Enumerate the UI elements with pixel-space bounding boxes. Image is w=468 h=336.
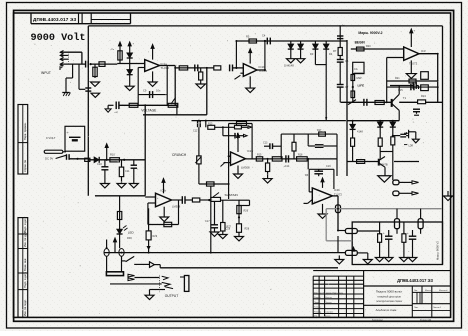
svg-text:TL072: TL072 <box>161 66 170 70</box>
svg-text:C13: C13 <box>263 142 268 145</box>
svg-text:Инв. № подл.: Инв. № подл. <box>23 299 27 316</box>
svg-text:1N4148: 1N4148 <box>284 63 294 67</box>
svg-text:электрическая схема: электрическая схема <box>376 300 402 303</box>
svg-text:9 VOLT: 9 VOLT <box>46 136 56 140</box>
svg-text:R15: R15 <box>257 154 262 157</box>
svg-text:Инв. № дубл.: Инв. № дубл. <box>23 230 27 247</box>
svg-text:ДП9В.4403.017 ЭЗ: ДП9В.4403.017 ЭЗ <box>33 17 76 22</box>
svg-text:R26: R26 <box>244 210 249 213</box>
svg-text:DC 9V: DC 9V <box>45 157 53 161</box>
svg-text:LDR: LDR <box>409 146 414 148</box>
svg-text:C12: C12 <box>193 130 198 133</box>
svg-text:SUSTAIN: SUSTAIN <box>225 193 238 197</box>
svg-text:Петров: Петров <box>325 302 332 304</box>
svg-text:LED: LED <box>128 231 135 235</box>
svg-text:Копировал: Копировал <box>372 319 384 321</box>
svg-text:R10: R10 <box>110 153 115 157</box>
svg-text:9000 Volt: 9000 Volt <box>31 32 86 44</box>
svg-text:IC3b: IC3b <box>334 188 340 192</box>
svg-text:R13: R13 <box>208 123 213 126</box>
svg-text:MW: MW <box>357 76 362 80</box>
svg-text:Масса: Масса <box>425 290 432 292</box>
svg-text:C11: C11 <box>125 169 130 173</box>
svg-text:BC547B: BC547B <box>378 162 388 166</box>
svg-text:R21: R21 <box>395 77 400 80</box>
svg-text:Н.контр.: Н.контр. <box>314 311 322 313</box>
svg-text:R28: R28 <box>245 228 250 231</box>
svg-text:Альбом из схем: Альбом из схем <box>376 308 397 312</box>
svg-text:Котов: Котов <box>325 316 330 318</box>
svg-text:VOLTAGE: VOLTAGE <box>141 109 157 113</box>
svg-text:Утв.: Утв. <box>314 316 318 318</box>
svg-text:R29: R29 <box>153 235 158 238</box>
svg-text:Листов 1: Листов 1 <box>433 307 442 309</box>
svg-text:Лит.: Лит. <box>414 290 418 292</box>
svg-text:Взам. инв.: Взам. инв. <box>23 258 27 271</box>
svg-text:R7: R7 <box>333 49 337 53</box>
svg-text:Марш. 9000V-2: Марш. 9000V-2 <box>358 31 382 35</box>
svg-text:гитарный дисторшн: гитарный дисторшн <box>377 294 401 298</box>
svg-text:Иванов: Иванов <box>325 297 332 299</box>
svg-text:CRUNCH: CRUNCH <box>172 153 187 157</box>
svg-text:R5: R5 <box>246 35 250 39</box>
svg-text:D3: D3 <box>310 52 314 56</box>
svg-text:C18: C18 <box>226 228 231 231</box>
svg-text:TL072: TL072 <box>409 62 418 66</box>
svg-text:Изм Лист № докум. Подп. Дата: Изм Лист № докум. Подп. Дата <box>314 291 344 294</box>
svg-text:C10: C10 <box>97 162 102 166</box>
svg-text:Т.контр.: Т.контр. <box>314 307 322 309</box>
svg-text:BEGIN: BEGIN <box>355 40 366 44</box>
svg-text:Масштаб: Масштаб <box>439 290 448 292</box>
svg-text:Разраб.: Разраб. <box>314 297 322 299</box>
svg-text:IC3: IC3 <box>421 49 426 53</box>
svg-text:ДП9В.4403.017 ЭЗ: ДП9В.4403.017 ЭЗ <box>397 278 433 283</box>
svg-text:Перв. примен.: Перв. примен. <box>23 122 27 140</box>
svg-text:C19: C19 <box>326 165 331 168</box>
svg-text:C15: C15 <box>398 89 403 92</box>
svg-text:R20: R20 <box>366 45 371 48</box>
svg-text:R17: R17 <box>317 129 322 132</box>
svg-text:R31: R31 <box>305 174 310 177</box>
svg-text:4148: 4148 <box>357 130 363 134</box>
svg-text:LM308: LM308 <box>172 205 181 209</box>
svg-text:Справ. №: Справ. № <box>23 160 27 172</box>
svg-text:Подп. и дата: Подп. и дата <box>23 272 27 288</box>
svg-text:R24: R24 <box>421 94 426 98</box>
svg-text:Лист: Лист <box>414 307 418 309</box>
svg-text:LIFE: LIFE <box>358 84 365 88</box>
svg-text:OUTPUT: OUTPUT <box>165 294 179 298</box>
svg-text:CA: CA <box>354 67 358 71</box>
svg-text:Пров.: Пров. <box>314 302 320 304</box>
svg-text:R30: R30 <box>127 236 132 240</box>
svg-text:INPUT: INPUT <box>41 71 51 75</box>
svg-text:+: + <box>414 29 416 33</box>
svg-text:C4: C4 <box>262 34 266 38</box>
svg-text:Педаль 9000 вольт: Педаль 9000 вольт <box>376 290 403 294</box>
svg-text:+: + <box>67 131 69 135</box>
svg-text:C9: C9 <box>143 89 147 93</box>
svg-text:R18: R18 <box>298 154 303 157</box>
svg-text:Марш. 9000 V2: Марш. 9000 V2 <box>436 241 440 260</box>
svg-text:+C14: +C14 <box>284 165 290 168</box>
svg-text:Формат A4: Формат A4 <box>420 318 432 321</box>
svg-text:Сидоров: Сидоров <box>325 311 333 313</box>
svg-text:10n: 10n <box>156 89 161 93</box>
svg-text:LM308: LM308 <box>241 165 250 169</box>
svg-text:C17: C17 <box>205 220 210 223</box>
